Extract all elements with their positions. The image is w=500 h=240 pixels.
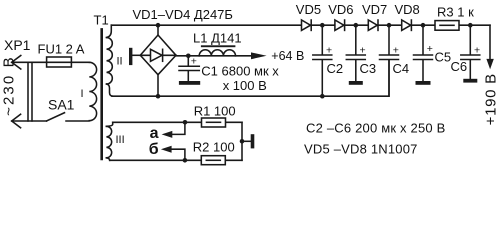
svg-text:I: I bbox=[81, 88, 84, 100]
resistor R2 label bbox=[193, 140, 235, 155]
connector XP1 body lines bbox=[28, 62, 32, 121]
svg-text:+: + bbox=[474, 44, 480, 56]
svg-text:б: б bbox=[149, 141, 159, 158]
svg-text:C1 6800 мк x: C1 6800 мк x bbox=[201, 63, 279, 78]
net ~230 V label bbox=[0, 55, 17, 116]
resistor R2 bbox=[201, 156, 225, 165]
svg-text:XP1: XP1 bbox=[4, 37, 31, 53]
switch SA1 label bbox=[48, 97, 75, 113]
note C2-C6 values bbox=[306, 120, 446, 135]
wire heater bottom bbox=[110, 159, 242, 161]
svg-text:C3: C3 bbox=[360, 61, 377, 76]
connector XP1 label bbox=[4, 37, 31, 53]
svg-text:VD8: VD8 bbox=[395, 2, 420, 17]
svg-text:+: + bbox=[427, 43, 433, 55]
node junction a bbox=[183, 120, 188, 125]
svg-text:+: + bbox=[393, 44, 399, 56]
inductor L1 core bbox=[201, 45, 236, 47]
connector XP1 pin arrow top bbox=[12, 56, 21, 70]
rectifier bridge VD1-VD4 bbox=[140, 35, 176, 75]
wire bottom rail bbox=[112, 60, 389, 96]
node top pin wire bbox=[12, 61, 47, 63]
resistor R1 label bbox=[194, 104, 236, 119]
winding II label II bbox=[117, 56, 123, 68]
svg-text:III: III bbox=[116, 134, 125, 146]
label VD6 bbox=[328, 2, 353, 17]
svg-text:C2 –C6 200 мк x 250 В: C2 –C6 200 мк x 250 В bbox=[306, 120, 446, 135]
node junction after R3 bbox=[468, 23, 473, 28]
diode VD6 bbox=[335, 20, 344, 30]
ground chassis bar heater bbox=[242, 140, 251, 142]
svg-text:T1: T1 bbox=[94, 13, 109, 28]
node junction chassis tap bbox=[240, 139, 245, 144]
ground chassis bar C3 bbox=[349, 81, 363, 85]
resistor R3 label bbox=[437, 4, 474, 19]
svg-text:R3 1 к: R3 1 к bbox=[437, 4, 474, 19]
bridge inner diode bbox=[140, 54, 176, 56]
diode VD5 bbox=[302, 20, 311, 30]
note VD5-VD8 type bbox=[304, 141, 418, 156]
node junction bridge top bbox=[156, 23, 161, 28]
winding III label III bbox=[116, 134, 125, 146]
svg-text:VD5 –VD8 1N1007: VD5 –VD8 1N1007 bbox=[304, 141, 418, 156]
transformer T1 winding I bbox=[89, 62, 96, 120]
wire bridge top stub bbox=[157, 25, 159, 35]
fuse FU1 label bbox=[38, 42, 85, 57]
capacitor C1 plus bbox=[191, 56, 197, 68]
svg-text:R1 100: R1 100 bbox=[194, 104, 236, 119]
tap b arrow bbox=[172, 149, 185, 160]
capacitor C4 bbox=[388, 25, 390, 96]
svg-text:+: + bbox=[360, 44, 366, 56]
node junction C1 bbox=[186, 54, 191, 59]
wire +64V line bbox=[176, 54, 252, 57]
svg-text:~230 В: ~230 В bbox=[0, 55, 17, 116]
node junction after VD6 bbox=[354, 23, 359, 28]
wire heater top bbox=[113, 121, 242, 123]
node junction after VD5 bbox=[320, 23, 325, 28]
diode VD7 bbox=[368, 20, 377, 30]
switch SA1 lever bbox=[47, 113, 65, 121]
resistor R1 bbox=[202, 118, 226, 127]
transformer T1 winding III bbox=[106, 122, 112, 126]
svg-text:+64 В: +64 В bbox=[271, 49, 304, 63]
winding I label I bbox=[81, 88, 84, 100]
label VD5 bbox=[296, 2, 321, 17]
node junction b bbox=[183, 158, 188, 163]
svg-text:+: + bbox=[191, 56, 197, 68]
capacitor C3 bbox=[355, 25, 357, 81]
svg-text:+190 В: +190 В bbox=[482, 73, 499, 125]
node junction after VD7 bbox=[387, 23, 392, 28]
svg-text:C2: C2 bbox=[327, 61, 344, 76]
output arrow +64V bbox=[251, 52, 267, 59]
capacitor C5 bbox=[422, 25, 424, 81]
svg-text:C4: C4 bbox=[393, 61, 410, 76]
fuse FU1 bbox=[47, 61, 90, 63]
svg-text:VD5: VD5 bbox=[296, 2, 321, 17]
wire SA1 to winding I bbox=[66, 120, 89, 122]
svg-text:R2 100: R2 100 bbox=[193, 140, 235, 155]
svg-text:VD6: VD6 bbox=[328, 2, 353, 17]
node junction after VD8 bbox=[421, 23, 426, 28]
ground chassis bar C6 bbox=[463, 79, 477, 83]
wire bridge bottom stub bbox=[157, 75, 159, 97]
svg-text:C6: C6 bbox=[451, 59, 468, 74]
capacitor C1 bbox=[187, 56, 189, 81]
transformer T1 core bbox=[100, 29, 103, 159]
inductor L1 bbox=[199, 50, 235, 56]
svg-text:SA1: SA1 bbox=[48, 97, 75, 113]
label C1 bbox=[201, 63, 279, 78]
tap a arrow bbox=[172, 122, 185, 134]
resistor R3 bbox=[435, 21, 459, 31]
capacitor C2 bbox=[321, 25, 323, 96]
ground chassis bar at bridge bbox=[132, 54, 140, 56]
ground chassis bar C5 bbox=[416, 81, 431, 85]
label VD1-VD4 bbox=[133, 7, 233, 22]
inductor L1 label bbox=[193, 30, 242, 45]
ground chassis bar C1 bbox=[179, 81, 200, 85]
label VD8 bbox=[395, 2, 420, 17]
connector XP1 pin arrow bottom bbox=[12, 114, 21, 128]
node junction C2 bottom bbox=[320, 94, 325, 99]
node bottom pin wire bbox=[12, 120, 47, 122]
svg-text:а: а bbox=[150, 125, 159, 142]
capacitor C6 bbox=[469, 25, 471, 79]
output arrow +190V bbox=[489, 25, 491, 59]
diode VD8 bbox=[402, 20, 411, 30]
svg-text:II: II bbox=[117, 56, 123, 68]
wire heater right vertical bbox=[241, 122, 243, 160]
transformer T1 label bbox=[94, 13, 109, 28]
wire top rail bbox=[111, 24, 490, 26]
svg-text:C5: C5 bbox=[435, 50, 452, 65]
svg-text:VD1–VD4 Д247Б: VD1–VD4 Д247Б bbox=[133, 7, 233, 22]
node junction bridge bottom bbox=[156, 94, 161, 99]
label VD7 bbox=[362, 2, 387, 17]
svg-text:VD7: VD7 bbox=[362, 2, 387, 17]
svg-text:L1 Д141: L1 Д141 bbox=[193, 30, 242, 45]
svg-text:x 100 В: x 100 В bbox=[223, 78, 267, 93]
svg-text:+: + bbox=[326, 44, 332, 56]
transformer T1 winding II bbox=[107, 25, 112, 37]
svg-text:FU1 2 A: FU1 2 A bbox=[38, 42, 85, 57]
